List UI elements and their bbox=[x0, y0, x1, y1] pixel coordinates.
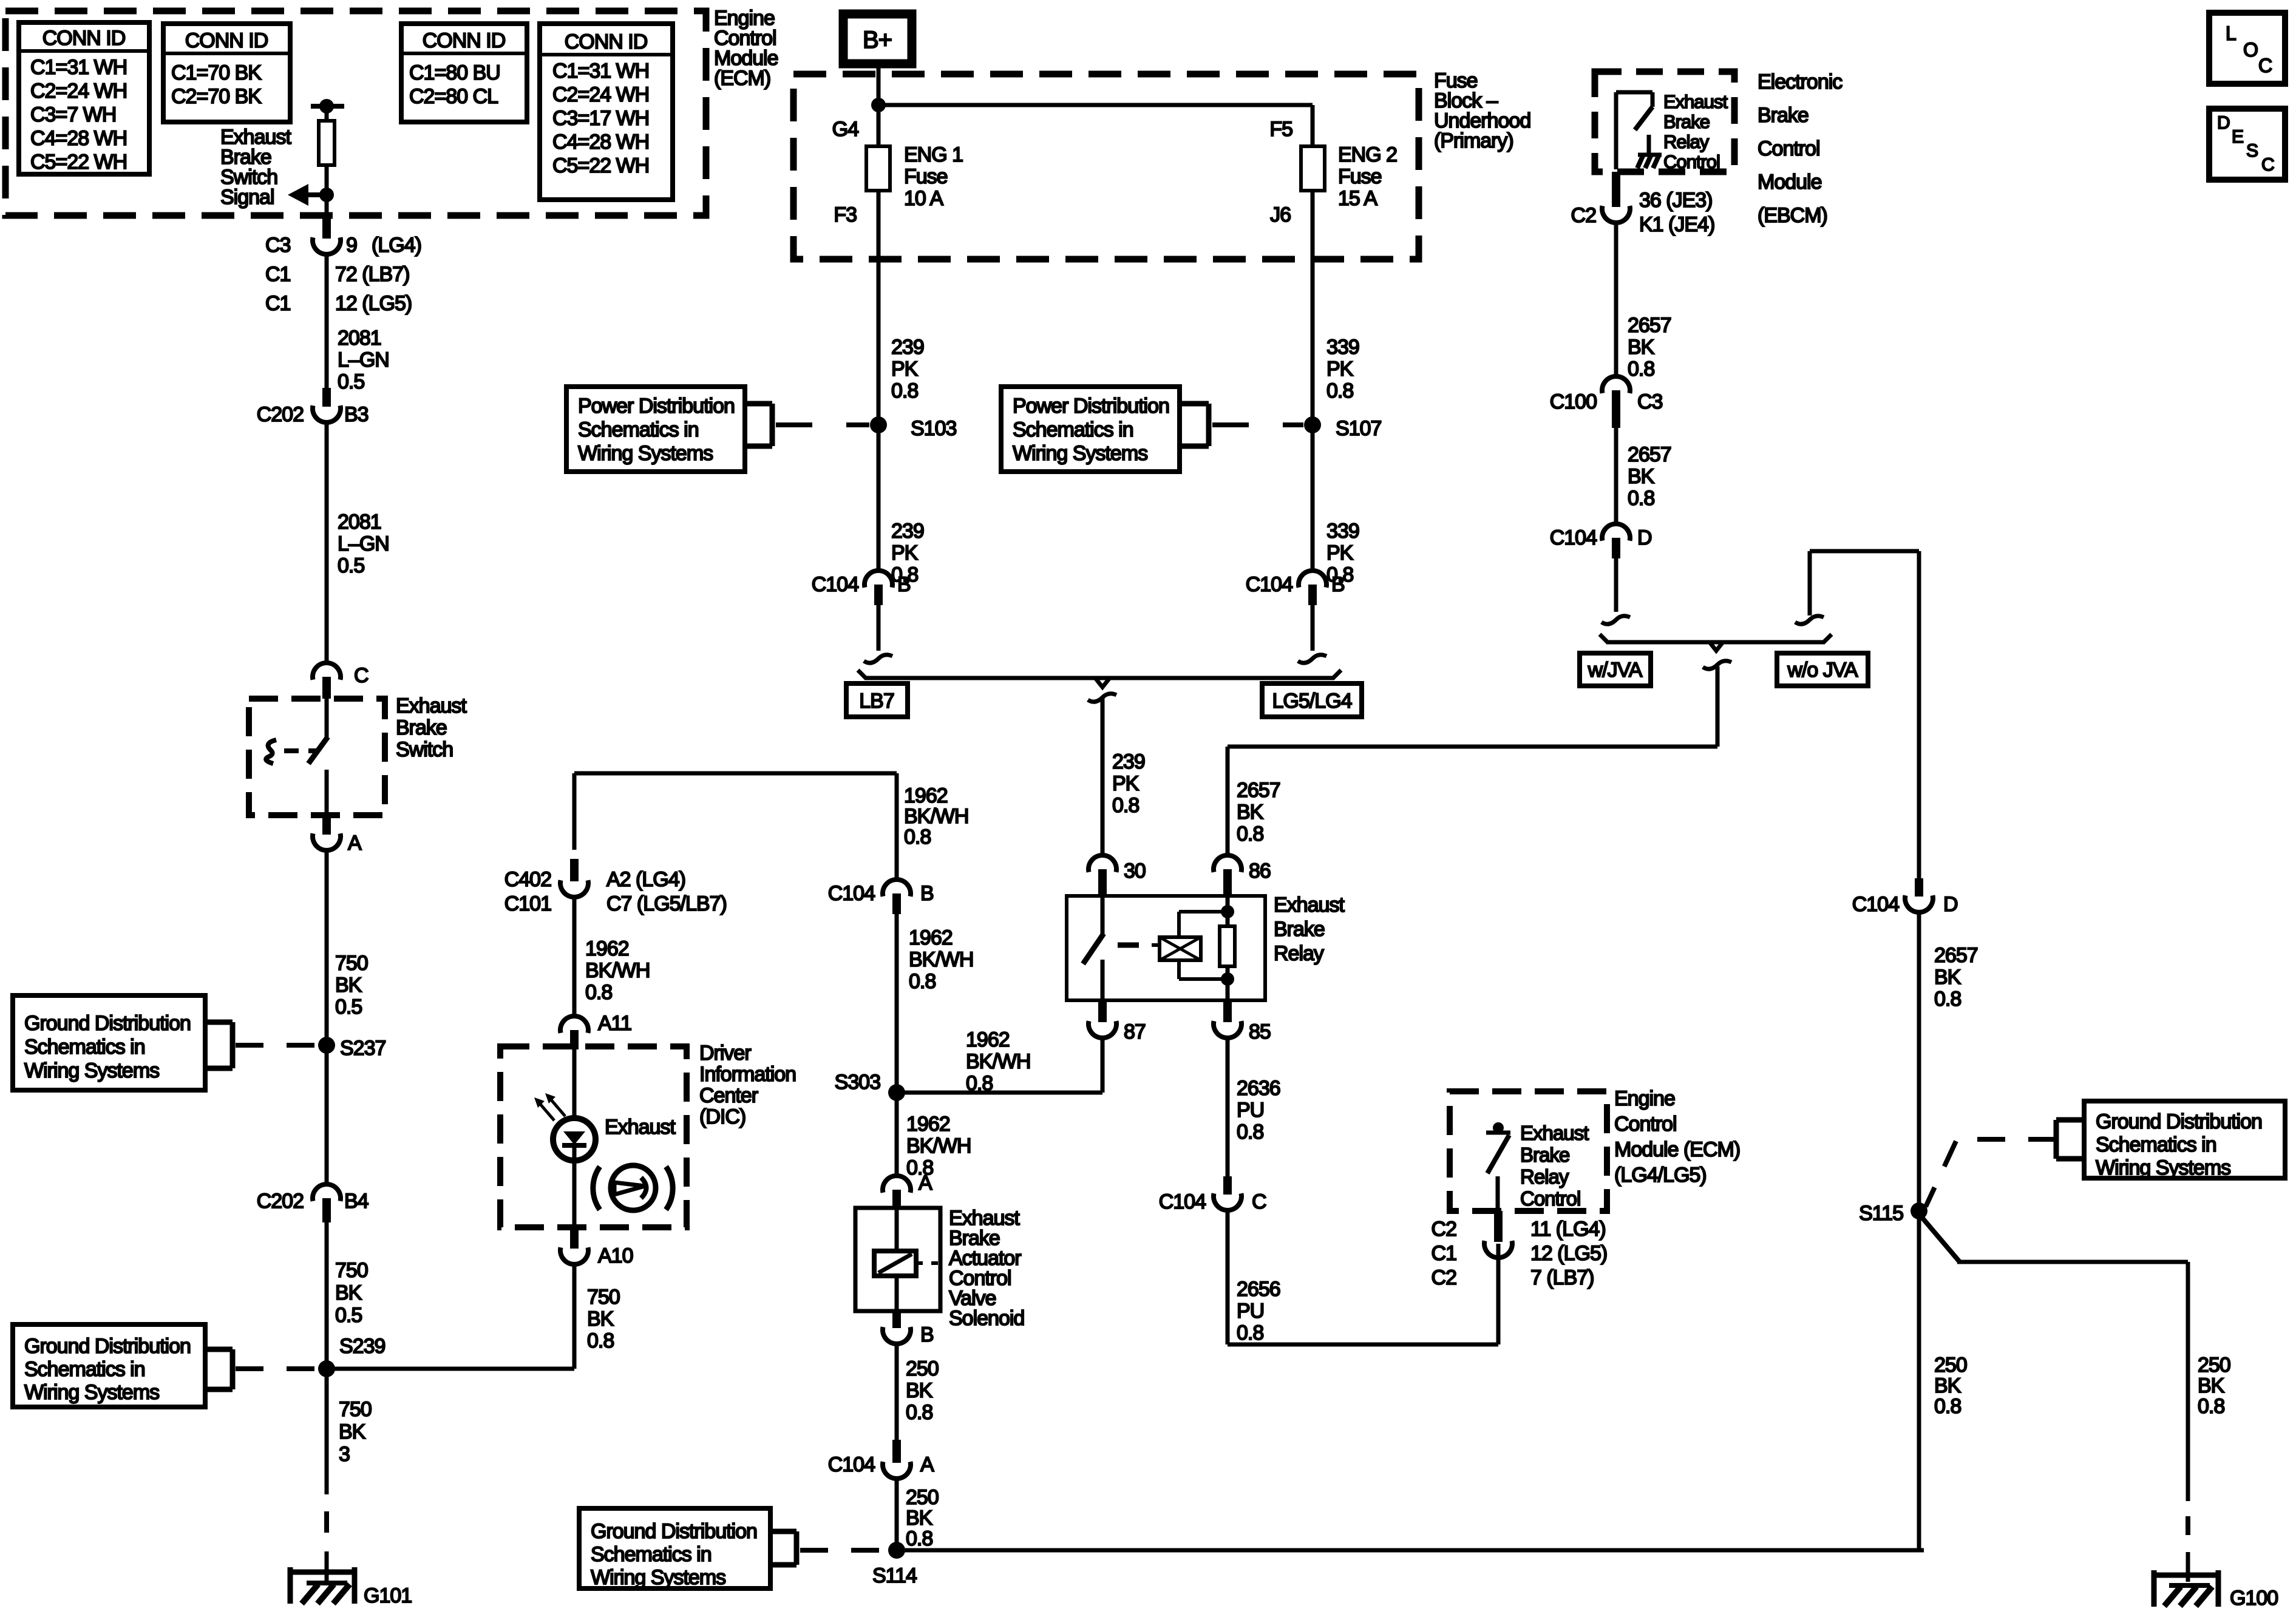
wire: S115 to G100 drop bbox=[1919, 1214, 1960, 1262]
svg-text:C5=22 WH: C5=22 WH bbox=[30, 151, 127, 174]
svg-text:F3: F3 bbox=[834, 203, 857, 226]
svg-text:PK: PK bbox=[1326, 358, 1354, 381]
svg-text:PU: PU bbox=[1237, 1300, 1264, 1323]
svg-text:339: 339 bbox=[1326, 336, 1359, 359]
svg-text:(DIC): (DIC) bbox=[699, 1105, 746, 1128]
svg-text:S115: S115 bbox=[1859, 1202, 1903, 1225]
svg-text:C104: C104 bbox=[812, 573, 858, 596]
svg-text:C1=31 WH: C1=31 WH bbox=[552, 59, 649, 83]
brace tap hook to relay feed bbox=[1088, 694, 1116, 702]
svg-text:LG5/LG4: LG5/LG4 bbox=[1272, 690, 1352, 713]
connector A11 at DIC bbox=[560, 1016, 588, 1033]
ECM relay-control driver symbol bbox=[1493, 1122, 1504, 1133]
svg-text:Exhaust: Exhaust bbox=[396, 694, 467, 717]
wire: bus to ENG 2 fuse bbox=[878, 103, 1313, 107]
splice node S239 bbox=[318, 1360, 335, 1377]
svg-text:C3=17 WH: C3=17 WH bbox=[552, 107, 649, 130]
svg-text:339: 339 bbox=[1326, 520, 1359, 543]
svg-text:Brake: Brake bbox=[396, 716, 447, 739]
svg-text:C202: C202 bbox=[257, 1190, 304, 1213]
relay box: Exhaust Brake Relay bbox=[1067, 896, 1265, 1000]
connector B at solenoid bbox=[892, 1311, 901, 1328]
svg-text:Relay: Relay bbox=[1274, 942, 1324, 965]
wire: signal line to ECM boundary bbox=[325, 195, 329, 217]
svg-text:0.8: 0.8 bbox=[585, 981, 612, 1004]
svg-text:Control: Control bbox=[1520, 1187, 1580, 1210]
svg-text:750: 750 bbox=[335, 1259, 368, 1282]
svg-text:10 A: 10 A bbox=[904, 187, 943, 210]
svg-text:Ground Distribution: Ground Distribution bbox=[2096, 1110, 2262, 1133]
wire: 2636 PU 0.8 relay 85 to C104 C bbox=[1226, 1039, 1230, 1176]
svg-text:C3: C3 bbox=[1637, 390, 1663, 413]
svg-text:G101: G101 bbox=[364, 1584, 412, 1607]
svg-text:C1=80 BU: C1=80 BU bbox=[409, 61, 500, 84]
wire: DIC feed corner bbox=[574, 771, 897, 776]
connector C2/C1/C2 at ECM (pins 11/12/7) bbox=[1494, 1211, 1503, 1242]
svg-text:1962: 1962 bbox=[909, 926, 953, 949]
svg-text:Control: Control bbox=[1663, 151, 1720, 172]
wire: 1962 BK/WH 0.8 C104 B to S303 bbox=[895, 907, 899, 1093]
wire: S303 to solenoid A bbox=[895, 1093, 899, 1175]
svg-text:C104: C104 bbox=[828, 1453, 875, 1476]
svg-text:G4: G4 bbox=[832, 118, 858, 141]
svg-text:Schematics in: Schematics in bbox=[591, 1543, 712, 1566]
legend box DESC bbox=[2209, 109, 2285, 180]
svg-text:ENG 1: ENG 1 bbox=[904, 143, 963, 166]
svg-text:Wiring Systems: Wiring Systems bbox=[1013, 442, 1147, 465]
svg-text:0.8: 0.8 bbox=[1237, 822, 1263, 846]
svg-text:Ground Distribution: Ground Distribution bbox=[24, 1335, 191, 1358]
svg-text:A2 (LG4): A2 (LG4) bbox=[606, 868, 685, 891]
wire: 750 BK 0.8 A10 to S239 branch bbox=[572, 1265, 577, 1369]
svg-text:C104: C104 bbox=[1159, 1190, 1206, 1213]
connector: relay pin 85 bbox=[1223, 1000, 1232, 1022]
svg-text:0.8: 0.8 bbox=[891, 379, 918, 402]
connector C202 pin B4 bbox=[313, 1184, 341, 1201]
svg-text:CONN ID: CONN ID bbox=[423, 29, 506, 52]
svg-text:1962: 1962 bbox=[966, 1028, 1010, 1051]
wire: B+ to ENG 1 fuse bbox=[877, 64, 881, 146]
svg-text:BK: BK bbox=[1628, 336, 1655, 359]
svg-text:C2=24 WH: C2=24 WH bbox=[552, 83, 649, 106]
wire: 239 PK 0.8 fuse F3 to S103 bbox=[877, 191, 881, 425]
ground G100 bbox=[2152, 1570, 2157, 1607]
wire: LED to A10 bbox=[572, 1145, 577, 1227]
svg-text:(Primary): (Primary) bbox=[1434, 129, 1513, 152]
svg-text:L: L bbox=[2226, 22, 2236, 44]
indicator lamp LED (Exhaust telltale) bbox=[572, 1049, 577, 1119]
module box: Engine Control Module (ECM) (LG4/LG5), dashed bbox=[1450, 1091, 1607, 1211]
node: ECM internal supply tick bbox=[311, 104, 344, 109]
svg-text:0.8: 0.8 bbox=[1237, 1120, 1263, 1144]
svg-text:Solenoid: Solenoid bbox=[949, 1307, 1024, 1330]
svg-text:C: C bbox=[1252, 1190, 1266, 1213]
svg-text:Signal: Signal bbox=[220, 186, 274, 209]
svg-text:Wiring Systems: Wiring Systems bbox=[2096, 1156, 2230, 1179]
reference box: Ground Distribution Schematics (left upper) bbox=[13, 995, 205, 1090]
connector C104 pin B (solenoid feed) bbox=[883, 880, 911, 897]
svg-text:9: 9 bbox=[346, 234, 357, 257]
svg-text:Driver: Driver bbox=[699, 1042, 751, 1065]
svg-text:239: 239 bbox=[891, 520, 924, 543]
svg-text:(LG4): (LG4) bbox=[372, 234, 421, 257]
svg-text:C4=28 WH: C4=28 WH bbox=[552, 131, 649, 154]
svg-text:2636: 2636 bbox=[1237, 1077, 1280, 1100]
svg-text:1962: 1962 bbox=[585, 937, 629, 960]
svg-text:Ground Distribution: Ground Distribution bbox=[591, 1520, 757, 1543]
wire: 750 BK 0.5 (switch to S237) bbox=[325, 851, 329, 1045]
svg-text:CONN ID: CONN ID bbox=[565, 30, 648, 53]
svg-text:O: O bbox=[2243, 39, 2258, 61]
svg-text:C: C bbox=[2258, 55, 2272, 76]
svg-text:C402: C402 bbox=[504, 868, 551, 891]
svg-text:2081: 2081 bbox=[338, 327, 381, 350]
svg-text:C2: C2 bbox=[1571, 204, 1597, 227]
svg-text:0.8: 0.8 bbox=[1237, 1321, 1263, 1344]
wire: 250 BK 0.8 S115 to ground bus bbox=[1917, 1211, 1921, 1550]
svg-text:750: 750 bbox=[335, 952, 368, 975]
svg-text:C4=28 WH: C4=28 WH bbox=[30, 127, 127, 150]
switch SW1 blade and contacts bbox=[325, 699, 329, 738]
svg-text:C104: C104 bbox=[1246, 573, 1292, 596]
svg-text:BK/WH: BK/WH bbox=[909, 948, 973, 971]
svg-text:Power Distribution: Power Distribution bbox=[1013, 395, 1169, 418]
svg-text:0.8: 0.8 bbox=[906, 1527, 932, 1550]
signal arrow (Exhaust Brake Switch Signal) bbox=[306, 192, 327, 197]
bracket lead from reference box to S239 bbox=[205, 1347, 233, 1352]
wire: 2657 BK 0.8 C104 D to S115 bbox=[1917, 913, 1921, 1211]
svg-text:D: D bbox=[2217, 113, 2230, 133]
svg-text:K1 (JE4): K1 (JE4) bbox=[1639, 213, 1714, 236]
relay coil parallel connections bbox=[1177, 912, 1181, 937]
svg-text:1962: 1962 bbox=[904, 784, 948, 807]
svg-text:S237: S237 bbox=[340, 1037, 385, 1060]
svg-text:Schematics in: Schematics in bbox=[578, 418, 699, 441]
wire: 2657 BK 0.8 EBCM to C100 bbox=[1614, 223, 1618, 376]
wire: 339 PK 0.8 S107 to C104 bbox=[1311, 425, 1315, 571]
splice node S114 bbox=[888, 1542, 905, 1559]
svg-text:S103: S103 bbox=[911, 417, 956, 440]
svg-text:0.5: 0.5 bbox=[338, 370, 364, 393]
svg-text:C3: C3 bbox=[265, 234, 291, 257]
svg-text:C2: C2 bbox=[1432, 1266, 1457, 1289]
svg-text:B3: B3 bbox=[344, 403, 369, 426]
svg-text:F5: F5 bbox=[1269, 118, 1292, 141]
svg-text:BK: BK bbox=[1934, 966, 1961, 989]
svg-text:2657: 2657 bbox=[1628, 443, 1671, 466]
wire: 750 BK 3 to G101 bbox=[325, 1369, 329, 1494]
svg-text:BK/WH: BK/WH bbox=[904, 805, 968, 828]
svg-text:C104: C104 bbox=[1550, 526, 1597, 549]
svg-text:Engine: Engine bbox=[1614, 1087, 1675, 1110]
splice node S115 bbox=[1911, 1202, 1927, 1219]
svg-text:E: E bbox=[2232, 127, 2243, 147]
module box: Electronic Brake Control Module (EBCM), dashed bbox=[1595, 72, 1734, 172]
connector A at exhaust brake switch bbox=[322, 815, 331, 835]
svg-text:C2=80 CL: C2=80 CL bbox=[409, 85, 498, 108]
svg-text:Exhaust: Exhaust bbox=[1274, 893, 1345, 917]
connector C at exhaust brake switch bbox=[313, 663, 341, 680]
svg-text:Wiring Systems: Wiring Systems bbox=[24, 1381, 159, 1404]
svg-text:B+: B+ bbox=[863, 27, 892, 53]
svg-text:C1=70 BK: C1=70 BK bbox=[171, 61, 262, 84]
junction dot at B+ bus bbox=[871, 98, 886, 112]
svg-text:0.8: 0.8 bbox=[1628, 487, 1654, 510]
svg-text:BK: BK bbox=[906, 1379, 933, 1402]
svg-text:Schematics in: Schematics in bbox=[24, 1036, 145, 1059]
svg-text:Relay: Relay bbox=[1663, 131, 1710, 152]
bracket lead from reference box to S114 bbox=[770, 1529, 796, 1534]
svg-text:C1: C1 bbox=[265, 263, 291, 286]
bracket lead from reference box to S107 bbox=[1180, 401, 1209, 407]
svg-text:250: 250 bbox=[1934, 1354, 1967, 1377]
svg-text:0.8: 0.8 bbox=[906, 1401, 932, 1424]
tag box LB7 bbox=[846, 683, 908, 717]
reference box: Power Distribution Schematics (left) bbox=[566, 387, 745, 472]
tag box LG5/LG4 bbox=[1262, 683, 1362, 717]
svg-text:Brake: Brake bbox=[1758, 104, 1809, 127]
connector C104 pin D (EBCM leg) bbox=[1602, 524, 1630, 541]
svg-text:3: 3 bbox=[339, 1443, 350, 1466]
splice node S103 bbox=[870, 416, 887, 433]
svg-text:A: A bbox=[348, 832, 362, 855]
reference box: Power Distribution Schematics (right) bbox=[1001, 387, 1180, 472]
svg-text:PK: PK bbox=[1112, 772, 1140, 795]
connector: relay pin 86 bbox=[1214, 855, 1241, 872]
variant brace (w/JVA vs w/o JVA) bbox=[1606, 640, 1825, 645]
svg-text:0.5: 0.5 bbox=[335, 995, 362, 1019]
svg-text:2656: 2656 bbox=[1237, 1278, 1280, 1301]
svg-text:B: B bbox=[920, 882, 934, 905]
svg-text:w/o JVA: w/o JVA bbox=[1787, 659, 1858, 682]
svg-text:Switch: Switch bbox=[396, 738, 453, 761]
svg-text:Wiring Systems: Wiring Systems bbox=[578, 442, 713, 465]
svg-text:0.8: 0.8 bbox=[1934, 1395, 1961, 1418]
svg-text:Fuse: Fuse bbox=[1338, 165, 1382, 188]
relay coil K1 (box with X) bbox=[1160, 937, 1201, 960]
wire: 2657 BK 0.8 relay 86 riser bbox=[1226, 747, 1230, 855]
svg-text:Ground Distribution: Ground Distribution bbox=[24, 1012, 191, 1035]
svg-text:Brake: Brake bbox=[1274, 918, 1325, 941]
ground G101 bbox=[288, 1567, 293, 1604]
junction dot at signal node bbox=[319, 188, 334, 202]
svg-text:BK: BK bbox=[339, 1420, 366, 1443]
connector A at solenoid bbox=[883, 1176, 911, 1193]
reference box: Ground Distribution Schematics (left lower) bbox=[13, 1324, 205, 1407]
svg-text:2081: 2081 bbox=[338, 510, 381, 534]
svg-text:C5=22 WH: C5=22 WH bbox=[552, 154, 649, 177]
connector C104 pin A bbox=[892, 1440, 901, 1463]
connector C104 pin C bbox=[1223, 1176, 1232, 1195]
svg-text:Exhaust: Exhaust bbox=[1663, 91, 1728, 112]
splice node S237 bbox=[318, 1037, 335, 1054]
svg-text:D: D bbox=[1637, 526, 1652, 549]
svg-text:A11: A11 bbox=[598, 1012, 631, 1035]
svg-text:Control: Control bbox=[1614, 1113, 1677, 1136]
svg-text:C1=31 WH: C1=31 WH bbox=[30, 56, 127, 79]
svg-text:PK: PK bbox=[891, 541, 919, 564]
svg-text:C100: C100 bbox=[1550, 390, 1597, 413]
connector C3/C1/C1 at ECM (pins 9/72/12) bbox=[322, 215, 331, 239]
svg-text:250: 250 bbox=[906, 1357, 939, 1380]
svg-text:Wiring Systems: Wiring Systems bbox=[591, 1566, 725, 1589]
connector C2 at EBCM (pins 36/K1) bbox=[1612, 172, 1620, 207]
svg-text:0.8: 0.8 bbox=[587, 1329, 614, 1352]
switch box: Exhaust Brake Switch, dashed bbox=[249, 699, 385, 815]
splice node S303 bbox=[888, 1084, 905, 1101]
svg-text:BK/WH: BK/WH bbox=[966, 1050, 1030, 1073]
wire: 750 BK 0.5 (S237 to C202 B4) bbox=[325, 1045, 329, 1185]
svg-text:1962: 1962 bbox=[906, 1113, 950, 1136]
svg-text:BK: BK bbox=[1628, 465, 1655, 488]
wire: w/o JVA jumper to C104 D bbox=[1810, 549, 1919, 554]
svg-text:G100: G100 bbox=[2230, 1587, 2278, 1610]
svg-text:Center: Center bbox=[699, 1084, 758, 1107]
svg-text:0.8: 0.8 bbox=[966, 1072, 993, 1095]
fuse ENG 1 (10 A) bbox=[866, 146, 890, 191]
connector C104 pin B (LG5/LG4 feed) bbox=[1299, 571, 1326, 588]
svg-text:PK: PK bbox=[1326, 541, 1354, 564]
resistor R1 (ECM pull-up) bbox=[325, 106, 329, 121]
svg-text:30: 30 bbox=[1124, 859, 1146, 883]
svg-text:85: 85 bbox=[1249, 1020, 1271, 1043]
svg-text:72 (LB7): 72 (LB7) bbox=[335, 263, 409, 286]
svg-text:Exhaust: Exhaust bbox=[605, 1116, 676, 1139]
connector-ID table 1 (CONN ID C1=31 WH ...) bbox=[19, 22, 149, 174]
svg-text:B: B bbox=[897, 573, 911, 596]
fuse ENG 2 (15 A) bbox=[1301, 146, 1325, 191]
EBCM relay-control driver symbol bbox=[1614, 92, 1618, 169]
reference box: Ground Distribution Schematics (bottom centre) bbox=[579, 1508, 770, 1588]
svg-text:B: B bbox=[1331, 573, 1345, 596]
svg-text:C: C bbox=[354, 664, 369, 687]
svg-text:BK: BK bbox=[1934, 1374, 1961, 1397]
module box: Engine Control Module (ECM), dashed bbox=[5, 11, 706, 215]
tag box w/JVA bbox=[1580, 653, 1651, 686]
svg-text:BK: BK bbox=[1237, 801, 1264, 824]
svg-text:BK: BK bbox=[335, 974, 362, 997]
wire: 2656 PU 0.8 C104 C to ECM bbox=[1226, 1211, 1230, 1344]
wire: S239 branch to DIC return bbox=[327, 1367, 574, 1371]
solenoid box: Exhaust Brake Actuator Control Valve Solenoid bbox=[855, 1208, 940, 1311]
wire: 1962 BK/WH 0.8 to A11 bbox=[572, 898, 577, 1016]
wire end hook (EBCM leg) bbox=[1614, 558, 1618, 612]
svg-text:C1: C1 bbox=[1432, 1242, 1457, 1265]
svg-text:C202: C202 bbox=[257, 403, 304, 426]
svg-text:0.8: 0.8 bbox=[1326, 379, 1353, 402]
svg-text:239: 239 bbox=[1112, 750, 1145, 773]
svg-text:12 (LG5): 12 (LG5) bbox=[1530, 1242, 1607, 1265]
solenoid valve symbol bbox=[895, 1208, 899, 1251]
svg-text:B: B bbox=[920, 1323, 934, 1346]
bracket lead from reference box to S103 bbox=[745, 401, 772, 407]
relay suppression resistor bbox=[1226, 896, 1230, 926]
junction dot at resistor top bbox=[319, 99, 334, 114]
svg-text:C1: C1 bbox=[265, 292, 291, 315]
relay actuation dashed link bbox=[1118, 943, 1139, 948]
svg-text:0.8: 0.8 bbox=[1628, 358, 1654, 381]
svg-text:36 (JE3): 36 (JE3) bbox=[1639, 189, 1713, 212]
svg-text:Power Distribution: Power Distribution bbox=[578, 395, 735, 418]
svg-text:(LG4/LG5): (LG4/LG5) bbox=[1614, 1164, 1707, 1187]
svg-text:Schematics in: Schematics in bbox=[2096, 1133, 2216, 1156]
wire: 339 PK 0.8 fuse J6 to S107 bbox=[1311, 191, 1315, 425]
svg-text:87: 87 bbox=[1124, 1020, 1146, 1043]
svg-text:(EBCM): (EBCM) bbox=[1758, 204, 1827, 227]
svg-text:0.8: 0.8 bbox=[904, 825, 931, 849]
svg-text:239: 239 bbox=[891, 336, 924, 359]
svg-text:12 (LG5): 12 (LG5) bbox=[335, 292, 412, 315]
svg-text:Fuse: Fuse bbox=[904, 165, 948, 188]
svg-text:(ECM): (ECM) bbox=[714, 67, 770, 90]
svg-text:Brake: Brake bbox=[1663, 111, 1710, 132]
connector: relay pin 30 bbox=[1089, 855, 1116, 872]
svg-text:Schematics in: Schematics in bbox=[1013, 418, 1133, 441]
svg-text:750: 750 bbox=[587, 1286, 620, 1309]
svg-text:C3=7 WH: C3=7 WH bbox=[30, 103, 116, 126]
svg-text:S107: S107 bbox=[1336, 417, 1381, 440]
svg-text:750: 750 bbox=[339, 1398, 372, 1421]
wire: 2657 BK 0.8 C100 to C104 bbox=[1614, 428, 1618, 524]
svg-text:BK/WH: BK/WH bbox=[906, 1134, 971, 1158]
battery feed B+ bbox=[843, 14, 912, 64]
svg-text:S114: S114 bbox=[872, 1564, 917, 1587]
connector: relay pin 87 bbox=[1098, 1000, 1107, 1022]
svg-text:ENG 2: ENG 2 bbox=[1338, 143, 1397, 166]
connector-ID table 3 (CONN ID C1=80 BU ...) bbox=[401, 24, 527, 122]
variant brace tap hook (w/JVA merge) bbox=[1703, 661, 1731, 669]
svg-text:250: 250 bbox=[906, 1486, 939, 1509]
svg-text:PK: PK bbox=[891, 358, 919, 381]
legend box LOC bbox=[2209, 13, 2285, 84]
svg-text:7 (LB7): 7 (LB7) bbox=[1530, 1266, 1594, 1289]
svg-text:C104: C104 bbox=[1852, 893, 1899, 916]
svg-text:LB7: LB7 bbox=[859, 690, 894, 713]
svg-text:C101: C101 bbox=[504, 892, 551, 915]
svg-text:C: C bbox=[2261, 155, 2274, 175]
svg-text:w/JVA: w/JVA bbox=[1588, 659, 1643, 682]
svg-text:11 (LG4): 11 (LG4) bbox=[1530, 1218, 1606, 1241]
svg-text:A: A bbox=[920, 1453, 934, 1476]
svg-text:S303: S303 bbox=[835, 1071, 880, 1094]
connector C202 pin B3 bbox=[322, 388, 331, 407]
svg-text:C7 (LG5/LB7): C7 (LG5/LB7) bbox=[606, 892, 727, 915]
engine-variant brace (LB7 / LG5-LG4 merge) bbox=[864, 676, 1334, 680]
wire: 750 BK 0.5 (B4 to S239) bbox=[325, 1222, 329, 1369]
svg-text:BK: BK bbox=[2198, 1374, 2225, 1397]
svg-text:L–GN: L–GN bbox=[338, 532, 389, 555]
svg-text:D: D bbox=[1943, 893, 1958, 916]
wire: 250 BK 0.8 to S114 bbox=[895, 1479, 899, 1550]
bracket lead from reference box to S237 bbox=[205, 1020, 233, 1025]
svg-text:S239: S239 bbox=[339, 1335, 385, 1358]
svg-text:0.8: 0.8 bbox=[1934, 988, 1961, 1011]
wire: ground bus S114 to right riser bbox=[897, 1548, 1924, 1553]
svg-text:C2=24 WH: C2=24 WH bbox=[30, 80, 127, 103]
connector-ID table 2 (CONN ID C1=70 BK ...) bbox=[163, 24, 290, 122]
svg-text:L–GN: L–GN bbox=[338, 348, 389, 371]
svg-text:BK/WH: BK/WH bbox=[585, 959, 650, 982]
svg-text:0.5: 0.5 bbox=[335, 1304, 362, 1327]
svg-text:S: S bbox=[2246, 141, 2258, 161]
relay switch contact bbox=[1101, 896, 1105, 935]
svg-text:0.5: 0.5 bbox=[338, 554, 364, 577]
svg-text:0.8: 0.8 bbox=[909, 970, 936, 993]
connector C100 pin C3 bbox=[1602, 376, 1630, 393]
fuse block box: Fuse Block - Underhood (Primary), dashed bbox=[793, 74, 1419, 259]
svg-text:CONN ID: CONN ID bbox=[185, 29, 268, 52]
connector A10 at DIC bbox=[570, 1227, 579, 1249]
